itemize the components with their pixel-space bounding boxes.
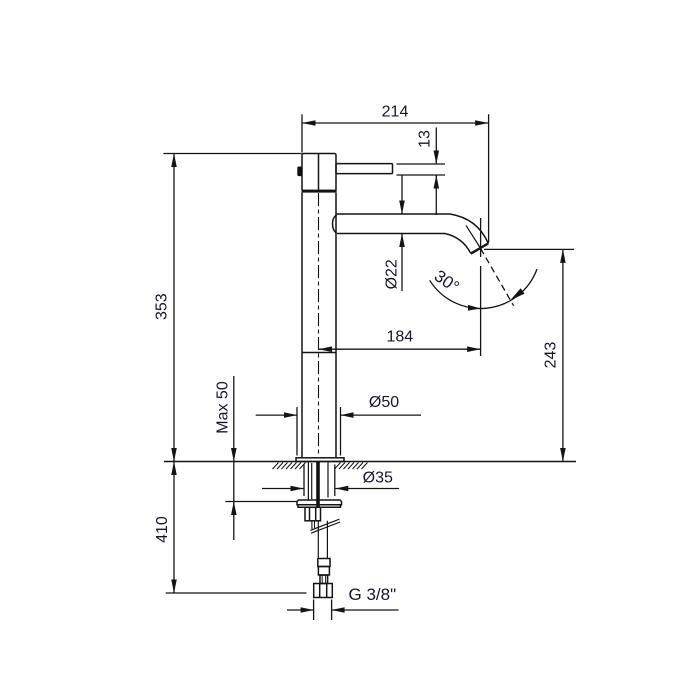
arc arrow at vertical line: [468, 305, 481, 311]
arc arrow at diagonal: [510, 288, 524, 300]
deck hatching left group: [273, 463, 306, 470]
dim D50 extension lines: [296, 407, 298, 456]
dim 214 line: [302, 122, 489, 124]
dim 243 line: [562, 249, 564, 461]
svg-text:Max 50: Max 50: [215, 381, 232, 434]
deck hatching right group: [335, 463, 368, 470]
214 arrows: [302, 120, 316, 126]
dim Max50 line: [233, 376, 235, 540]
svg-text:243: 243: [543, 342, 560, 369]
hose break symbol (double slash): [310, 519, 340, 533]
spout tube: [333, 214, 489, 254]
dim G3/8 extension lines: [313, 600, 315, 621]
D35 arrows: [291, 486, 304, 492]
dim D22 line: [401, 176, 403, 214]
outlet centerline: [480, 218, 482, 356]
410 arrows: [171, 462, 177, 476]
supply hose: [318, 521, 327, 559]
column centerline (dashed): [318, 193, 320, 457]
243 arrows: [560, 249, 566, 263]
13 arrows: [434, 151, 440, 165]
353 arrows: [171, 154, 177, 168]
svg-text:410: 410: [154, 516, 171, 543]
Max50 arrows: [231, 448, 237, 462]
dim Max50 extension line: [225, 501, 297, 503]
faucet column: [302, 193, 336, 458]
lower washer plate: [297, 500, 342, 507]
mounting nut: [305, 507, 321, 521]
outlet 30deg dashed axis: [481, 249, 514, 306]
lever handle: [336, 164, 393, 174]
dim 184 line: [319, 348, 481, 350]
dim 243 extension line: [484, 248, 574, 250]
D50 arrows: [284, 412, 297, 418]
dim 353/410 line: [173, 154, 175, 594]
countertop deck line: [164, 461, 576, 463]
svg-text:353: 353: [154, 293, 171, 320]
dim G3/8 line: [287, 609, 314, 611]
svg-text:G 3/8": G 3/8": [349, 585, 397, 604]
svg-text:214: 214: [382, 104, 409, 121]
svg-text:184: 184: [386, 329, 413, 346]
threaded shank below deck: [308, 462, 328, 500]
svg-text:Ø22: Ø22: [384, 259, 401, 289]
svg-text:13: 13: [417, 130, 434, 148]
stud stub below nut: [311, 521, 313, 529]
dim 13 line: [435, 128, 437, 164]
D22 arrows: [399, 201, 405, 215]
base flange: [296, 458, 344, 462]
svg-text:Ø35: Ø35: [363, 469, 393, 486]
30deg arc: [430, 269, 537, 309]
faucet head body: [297, 154, 336, 193]
dim 353/410 extension lines: [163, 153, 301, 155]
G3/8 connection nut: [314, 584, 333, 598]
dim 214 extension lines: [301, 114, 303, 152]
mounting stud (dark): [316, 462, 320, 507]
dim D35 extension lines: [303, 464, 305, 496]
svg-text:Ø50: Ø50: [369, 394, 399, 411]
G3/8 arrows: [301, 607, 314, 613]
dim D50 line: [256, 414, 297, 416]
184 arrows: [319, 346, 333, 352]
dim D35 line: [262, 488, 304, 490]
hose end fitting: [318, 559, 330, 584]
dim 13 extension lines: [397, 163, 446, 165]
